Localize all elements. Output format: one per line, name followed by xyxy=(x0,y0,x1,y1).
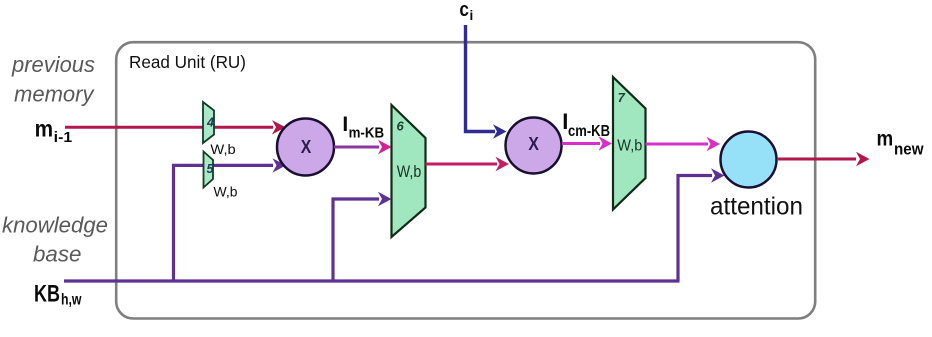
svg-text:W,b: W,b xyxy=(617,137,642,154)
svg-text:m: m xyxy=(35,116,54,142)
svg-text:X: X xyxy=(528,134,539,154)
svg-text:m-KB: m-KB xyxy=(349,125,385,142)
attention node xyxy=(721,132,777,188)
transform W,b 7 xyxy=(613,77,646,210)
svg-text:W,b: W,b xyxy=(210,141,236,157)
svg-text:memory: memory xyxy=(14,82,95,107)
svg-text:i-1: i-1 xyxy=(54,129,72,146)
svg-text:previous: previous xyxy=(11,52,95,77)
wire riser to attention xyxy=(678,176,712,282)
wire c_i navy xyxy=(466,25,496,132)
Read Unit (RU) box xyxy=(116,42,815,318)
wire X2 to transform 7 xyxy=(562,142,600,145)
wire transform 7 to attention xyxy=(646,143,709,146)
wire m_i-1 crimson xyxy=(65,126,273,129)
svg-text:KB: KB xyxy=(34,281,60,308)
svg-text:h,w: h,w xyxy=(61,292,82,309)
svg-text:attention: attention xyxy=(710,193,803,221)
svg-text:7: 7 xyxy=(618,90,626,105)
svg-text:cm-KB: cm-KB xyxy=(568,123,610,140)
svg-text:I: I xyxy=(342,113,348,136)
svg-text:6: 6 xyxy=(397,119,405,134)
transform W,b 6 xyxy=(392,105,426,237)
wire riser to shape 5 xyxy=(174,165,274,281)
svg-text:W,b: W,b xyxy=(397,163,422,181)
svg-text:base: base xyxy=(33,242,82,267)
svg-text:W,b: W,b xyxy=(214,184,238,200)
svg-text:Read Unit (RU): Read Unit (RU) xyxy=(129,52,246,72)
multiplier X1 xyxy=(277,119,334,176)
svg-text:m: m xyxy=(877,128,894,151)
svg-text:knowledge: knowledge xyxy=(2,213,108,238)
svg-text:X: X xyxy=(301,137,312,157)
svg-text:4: 4 xyxy=(206,116,214,130)
multiplier X2 xyxy=(506,118,562,174)
wire attention to m_new xyxy=(777,158,856,161)
svg-text:i: i xyxy=(470,8,474,23)
svg-text:new: new xyxy=(894,140,924,159)
transform W,b 4 xyxy=(203,102,214,143)
transform W,b 5 xyxy=(204,152,214,188)
wire KB bus purple xyxy=(64,279,680,282)
wire transform 6 to X2 xyxy=(426,163,498,166)
svg-text:5: 5 xyxy=(207,162,215,176)
wire X1 to transform 6 xyxy=(334,146,379,149)
svg-text:c: c xyxy=(459,0,469,21)
wire riser to transform 6 xyxy=(333,199,379,281)
